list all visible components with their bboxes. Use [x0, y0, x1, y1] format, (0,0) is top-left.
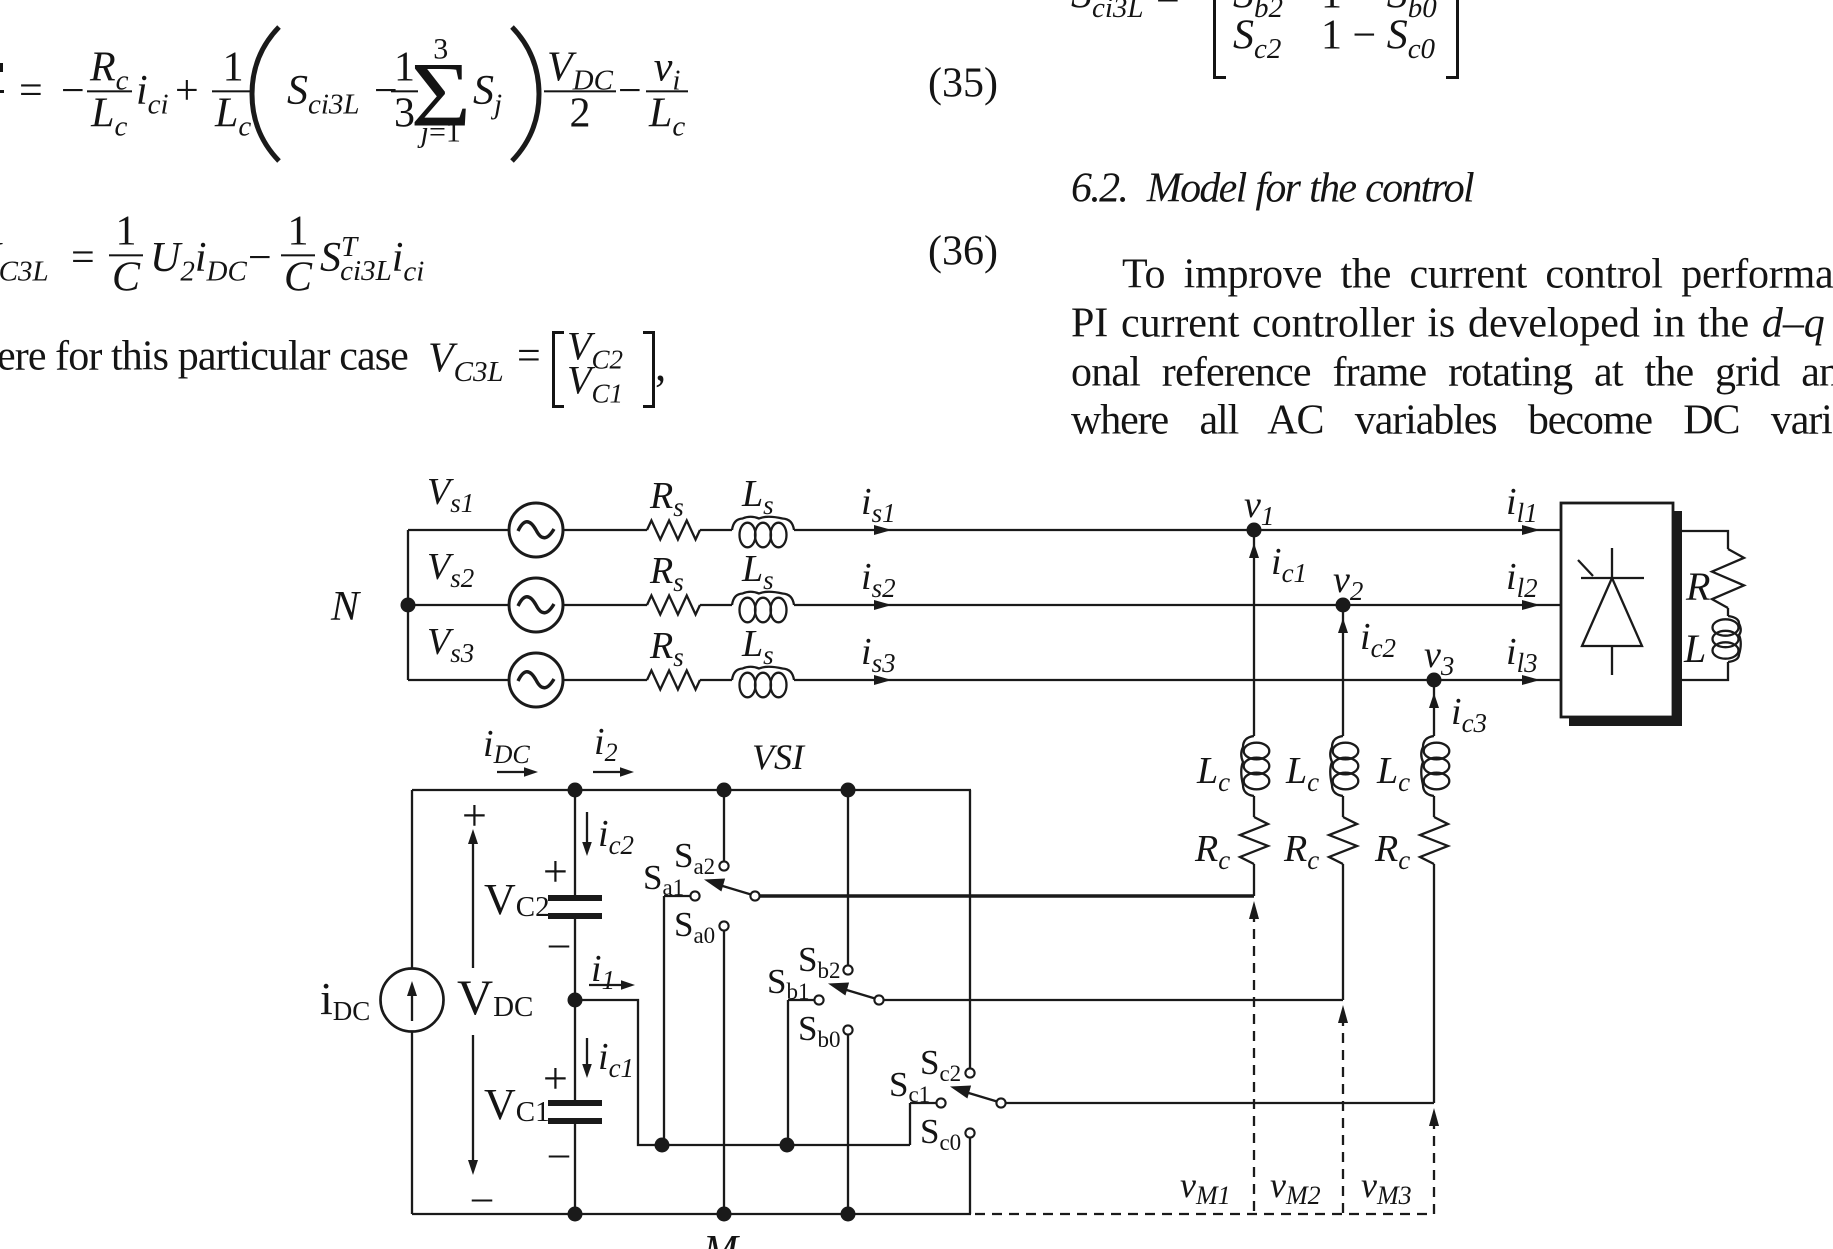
wire Sc1 drop — [909, 1103, 911, 1145]
thyristor triangle — [1582, 578, 1642, 646]
wire phase b output — [884, 999, 1343, 1001]
thyristor anode lead — [1611, 646, 1613, 675]
eq35 right paren — [512, 27, 539, 161]
current source iDC arrow shaft — [411, 992, 413, 1021]
svg-text:Rc: Rc — [1374, 828, 1410, 875]
wire Sc1 stub — [910, 1102, 936, 1104]
inductor Ls1 — [740, 523, 756, 548]
inductor Lc2 — [1333, 743, 1359, 760]
svg-text:Vs1: Vs1 — [427, 471, 474, 518]
wire Lc1-Rc1 — [1253, 796, 1255, 817]
svg-text:N: N — [330, 584, 361, 630]
contact Sb2 — [843, 965, 852, 974]
arrow ic1 down — [586, 1038, 588, 1069]
bottom rail wire — [412, 1213, 971, 1215]
svg-text:Rs: Rs — [649, 550, 684, 597]
resistor R load — [1712, 549, 1744, 608]
contact Sc0 — [965, 1128, 974, 1137]
VDC arrow up — [472, 840, 474, 968]
svg-text:Lc: Lc — [1285, 750, 1319, 797]
svg-text:Sc0: Sc0 — [920, 1112, 961, 1155]
resistor Rc3 — [1420, 817, 1448, 864]
svg-text:Vs3: Vs3 — [427, 621, 474, 668]
svg-text:is2: is2 — [861, 556, 896, 603]
rectifier shadow — [1569, 511, 1682, 726]
load bottom wire — [1682, 662, 1728, 680]
svg-text:ic1: ic1 — [1271, 541, 1307, 588]
svg-text:v1: v1 — [1244, 484, 1274, 531]
svg-text:–: – — [548, 920, 570, 965]
wire Sa0 leg — [723, 931, 725, 1215]
contact Sb0 — [843, 1025, 852, 1034]
svg-text:il2: il2 — [1506, 556, 1538, 603]
dashed vM3 line — [1433, 1119, 1435, 1214]
contact Sa0 — [719, 921, 728, 930]
arrow il1 — [1522, 525, 1540, 535]
svg-text:R: R — [1685, 564, 1710, 609]
wire Rs3-Ls3 — [700, 679, 732, 681]
svg-text:Rc: Rc — [1194, 828, 1230, 875]
wire Rc3 to phase-c line — [1433, 864, 1435, 1103]
bottom rail dot b — [841, 1207, 856, 1222]
arrow iDC top — [497, 771, 530, 773]
wire cap top — [574, 790, 576, 896]
dashed vM1 line — [1253, 912, 1255, 1214]
svg-text:i2: i2 — [594, 721, 618, 767]
svg-text:–: – — [548, 1130, 570, 1175]
neutral rail dot a — [655, 1138, 670, 1153]
svg-text:VSI: VSI — [752, 737, 806, 777]
svg-text:Lc: Lc — [1196, 750, 1230, 797]
wire Sb0 leg — [847, 1035, 849, 1215]
svg-text:Sb0: Sb0 — [798, 1009, 840, 1052]
switch blade arrow a — [704, 879, 725, 892]
switch blade b — [840, 988, 875, 999]
wire Sa1 stub — [664, 895, 690, 897]
current source iDC circle — [381, 969, 444, 1032]
svg-text:vM1: vM1 — [1180, 1165, 1231, 1210]
svg-text:is1: is1 — [861, 481, 896, 528]
wire Sb1 drop — [787, 1000, 789, 1145]
AC source Vs1 circle — [509, 503, 563, 557]
wire phase 3 to rectifier — [794, 679, 1561, 681]
switch blade a — [716, 884, 751, 895]
inductor Lc1 — [1244, 743, 1270, 760]
svg-text:Sb2: Sb2 — [798, 940, 840, 983]
wire Rs1-Ls1 — [700, 529, 732, 531]
inductor L load — [1713, 619, 1739, 635]
arrow i2 top — [593, 771, 626, 773]
inductor Ls3 — [740, 673, 756, 698]
capacitor VC2 plates — [548, 895, 602, 901]
wire Rc2 to phase-b line — [1342, 864, 1344, 1000]
top rail dot b — [841, 783, 856, 798]
wire Rc1 to phase-a line — [1253, 864, 1255, 896]
wire phase 2 source leads — [408, 604, 647, 606]
resistor Rc2 — [1329, 817, 1357, 864]
thyristor gate — [1578, 560, 1593, 576]
wire Sa2 leg — [723, 790, 725, 862]
svg-text:Ls: Ls — [741, 473, 774, 520]
svg-text:ic1: ic1 — [598, 1036, 634, 1083]
AC source Vs3 circle — [509, 653, 563, 707]
wire v1 to Lc — [1253, 530, 1255, 736]
svg-text:is3: is3 — [861, 631, 896, 678]
arrow ic2 down — [586, 812, 588, 847]
svg-text:VDC: VDC — [457, 969, 533, 1025]
wire cap bottom — [574, 1123, 576, 1215]
current source iDC arrow head — [407, 981, 417, 996]
contact common c — [996, 1098, 1005, 1107]
switch blade c — [962, 1091, 997, 1102]
svg-text:Sc2: Sc2 — [920, 1043, 961, 1086]
svg-text:ic2: ic2 — [1360, 616, 1396, 663]
svg-text:VC1: VC1 — [484, 1080, 550, 1129]
node cap midpoint dot — [568, 993, 583, 1008]
svg-text:Vs2: Vs2 — [427, 546, 474, 593]
svg-text:vM2: vM2 — [1270, 1165, 1321, 1210]
svg-text:ic3: ic3 — [1451, 691, 1487, 738]
svg-text:L: L — [1683, 626, 1706, 671]
wire phase a output — [760, 894, 1254, 897]
rectifier box — [1561, 503, 1673, 717]
resistor Rs2 — [647, 596, 700, 615]
svg-text:Sa0: Sa0 — [674, 905, 715, 948]
resistor Rs3 — [647, 671, 700, 690]
top rail wire — [412, 789, 971, 791]
contact Sa2 — [719, 861, 728, 870]
arrow i1 — [589, 984, 627, 986]
wire Rs2-Ls2 — [700, 604, 732, 606]
arrow il2 — [1522, 600, 1540, 610]
arrow ic1 up — [1249, 543, 1259, 558]
svg-text:–: – — [471, 1174, 493, 1219]
node N bus wire — [407, 530, 409, 680]
node v2 dot — [1336, 598, 1351, 613]
dashed vM2 line — [1342, 1016, 1344, 1214]
inductor Ls2 — [740, 598, 756, 623]
arrow ic3 up — [1429, 693, 1439, 708]
svg-text:Sa2: Sa2 — [674, 836, 715, 879]
arrow is2 — [874, 600, 892, 610]
svg-text:Lc: Lc — [1376, 750, 1410, 797]
svg-text:Ls: Ls — [741, 623, 774, 670]
wire phase 1 to rectifier — [794, 529, 1561, 531]
svg-text:Rs: Rs — [649, 475, 684, 522]
wire midpoint to neutral rail — [575, 1000, 910, 1145]
svg-text:VC2: VC2 — [484, 875, 550, 924]
contact Sa1 — [690, 891, 699, 900]
resistor Rs1 — [647, 521, 700, 540]
node v1 dot — [1247, 523, 1262, 538]
wire Lc3-Rc3 — [1433, 796, 1435, 817]
dashed bottom line — [975, 1213, 1434, 1215]
svg-text:vM3: vM3 — [1361, 1165, 1412, 1210]
wire cap middle — [574, 918, 576, 1102]
switch blade arrow c — [950, 1086, 971, 1099]
wire Sb2 leg — [847, 790, 849, 966]
svg-text:+: + — [462, 791, 487, 840]
bottom rail dot cap — [568, 1207, 583, 1222]
eq35 left paren — [252, 27, 279, 161]
svg-text:il3: il3 — [1506, 631, 1538, 678]
svg-text:v2: v2 — [1333, 559, 1363, 606]
arrow il3 — [1522, 675, 1540, 685]
load top wire — [1682, 531, 1728, 549]
wire Sa1 drop — [663, 896, 665, 1145]
contact common a — [750, 891, 759, 900]
inductor Lc3 — [1424, 743, 1450, 760]
AC source Vs2 sine — [518, 597, 554, 613]
contact Sc1 — [936, 1098, 945, 1107]
AC source Vs2 circle — [509, 578, 563, 632]
node v3 dot — [1427, 673, 1442, 688]
svg-text:Ls: Ls — [741, 548, 774, 595]
wire Sc0 leg — [969, 1138, 971, 1215]
top rail dot a — [717, 783, 732, 798]
svg-text:il1: il1 — [1506, 481, 1538, 528]
left bus wire — [411, 790, 413, 1214]
contact common b — [874, 995, 883, 1004]
svg-text:i1: i1 — [591, 948, 615, 995]
top rail junction dot cap — [568, 783, 583, 798]
wire Sc2 leg — [969, 790, 971, 1069]
AC source Vs1 sine — [518, 522, 554, 538]
svg-text:M: M — [702, 1228, 740, 1249]
contact Sb1 — [814, 995, 823, 1004]
svg-text:+: + — [543, 847, 568, 896]
wire v2 to Lc — [1342, 605, 1344, 736]
arrow is1 — [874, 525, 892, 535]
node N junction dot — [401, 598, 416, 613]
AC source Vs3 sine — [518, 672, 554, 688]
arrow is3 — [874, 675, 892, 685]
wire Lc2-Rc2 — [1342, 796, 1344, 817]
svg-text:iDC: iDC — [483, 723, 530, 769]
thyristor cathode bar — [1581, 577, 1644, 579]
wire phase 3 source leads — [408, 679, 647, 681]
svg-text:Rc: Rc — [1283, 828, 1319, 875]
contact Sc2 — [965, 1068, 974, 1077]
svg-text:ic2: ic2 — [598, 813, 634, 860]
arrow ic2 up — [1338, 618, 1348, 633]
svg-text:Rs: Rs — [649, 625, 684, 672]
wire Sb1 stub — [788, 999, 814, 1001]
capacitor VC1 plates — [548, 1100, 602, 1106]
switch blade arrow b — [828, 983, 849, 996]
VDC arrow down — [472, 1035, 474, 1164]
bottom rail dot a — [717, 1207, 732, 1222]
wire phase 1 source leads — [408, 529, 647, 531]
wire R-L load — [1727, 608, 1729, 616]
svg-text:v3: v3 — [1424, 634, 1454, 681]
wire phase c output — [1006, 1102, 1434, 1104]
wire v3 to Lc — [1433, 680, 1435, 736]
svg-text:iDC: iDC — [320, 973, 370, 1026]
thyristor cathode lead — [1611, 548, 1613, 578]
resistor Rc1 — [1240, 817, 1268, 864]
neutral rail dot b — [780, 1138, 795, 1153]
wire phase 2 to rectifier — [794, 604, 1561, 606]
